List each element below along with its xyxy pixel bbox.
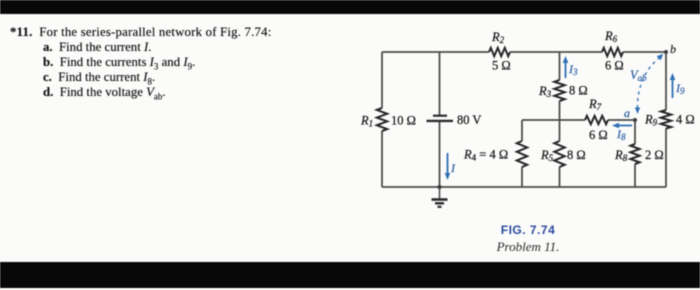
wire left side (R1 branch) bbox=[381, 52, 383, 187]
current arrow I3 bbox=[563, 56, 569, 78]
resistor R5 bbox=[554, 141, 564, 167]
node b bbox=[664, 50, 668, 54]
wire R4 branch bbox=[521, 120, 523, 187]
svg-text:2 Ω: 2 Ω bbox=[645, 148, 664, 162]
svg-text:R4 = 4 Ω: R4 = 4 Ω bbox=[463, 148, 508, 163]
voltage Vab dashed arrow a to b bbox=[635, 54, 663, 114]
wire bottom bbox=[382, 186, 666, 188]
wire right side (R9 branch) bbox=[665, 52, 667, 187]
wire R3 branch bbox=[559, 52, 561, 120]
svg-text:I3: I3 bbox=[568, 62, 578, 77]
svg-text:R1: R1 bbox=[360, 114, 373, 129]
wire top: R2 to R6 bbox=[510, 51, 602, 53]
svg-text:I: I bbox=[450, 161, 456, 175]
svg-text:I8: I8 bbox=[616, 127, 626, 142]
wire R5 branch bbox=[559, 120, 561, 187]
svg-text:I9: I9 bbox=[675, 81, 685, 96]
resistor R1 bbox=[377, 108, 387, 131]
svg-text:4 Ω: 4 Ω bbox=[676, 113, 695, 127]
node a bbox=[633, 118, 637, 122]
current arrow I bbox=[445, 153, 451, 180]
resistor R2 bbox=[489, 48, 510, 56]
top black bar bbox=[0, 0, 700, 14]
figure caption bbox=[428, 223, 628, 237]
problem statement text bbox=[10, 25, 271, 40]
current arrow I9 bbox=[670, 73, 676, 98]
svg-text:Vab: Vab bbox=[630, 68, 647, 83]
svg-text:10 Ω: 10 Ω bbox=[391, 114, 416, 128]
resistor R6 bbox=[602, 48, 623, 56]
svg-text:6 Ω: 6 Ω bbox=[605, 59, 624, 73]
label R1 10Ω bbox=[360, 29, 695, 163]
wire middle horizontal bbox=[522, 119, 635, 121]
svg-text:8 Ω: 8 Ω bbox=[569, 84, 588, 98]
svg-text:R8: R8 bbox=[614, 148, 628, 163]
resistor R3 bbox=[554, 80, 564, 101]
svg-text:R2: R2 bbox=[491, 30, 505, 45]
svg-text:6 Ω: 6 Ω bbox=[589, 128, 608, 142]
svg-text:5 Ω: 5 Ω bbox=[492, 59, 511, 73]
svg-text:b: b bbox=[670, 42, 676, 56]
svg-text:R6: R6 bbox=[604, 29, 618, 44]
current arrow I8 bbox=[612, 123, 632, 129]
wire battery branch bbox=[439, 52, 441, 187]
resistor R8 bbox=[630, 144, 639, 164]
node: battery-bottom junction bbox=[438, 185, 442, 189]
svg-text:80 V: 80 V bbox=[457, 113, 481, 127]
svg-text:R5: R5 bbox=[540, 148, 554, 163]
resistor R9 bbox=[661, 110, 671, 129]
svg-text:8 Ω: 8 Ω bbox=[567, 148, 586, 162]
svg-text:R9: R9 bbox=[644, 113, 658, 128]
svg-text:a: a bbox=[624, 106, 630, 120]
wire R8 branch bbox=[634, 120, 636, 187]
battery E 80V bbox=[427, 116, 454, 121]
ground bbox=[432, 187, 448, 207]
svg-text:R7: R7 bbox=[588, 97, 602, 112]
resistor R4 bbox=[517, 141, 527, 167]
bottom black bar bbox=[0, 262, 700, 288]
svg-text:R3: R3 bbox=[538, 84, 552, 99]
wire top: left corner to R2 bbox=[382, 51, 489, 53]
wire top: R6 to node b bbox=[623, 51, 666, 53]
resistor R7 bbox=[585, 116, 608, 124]
